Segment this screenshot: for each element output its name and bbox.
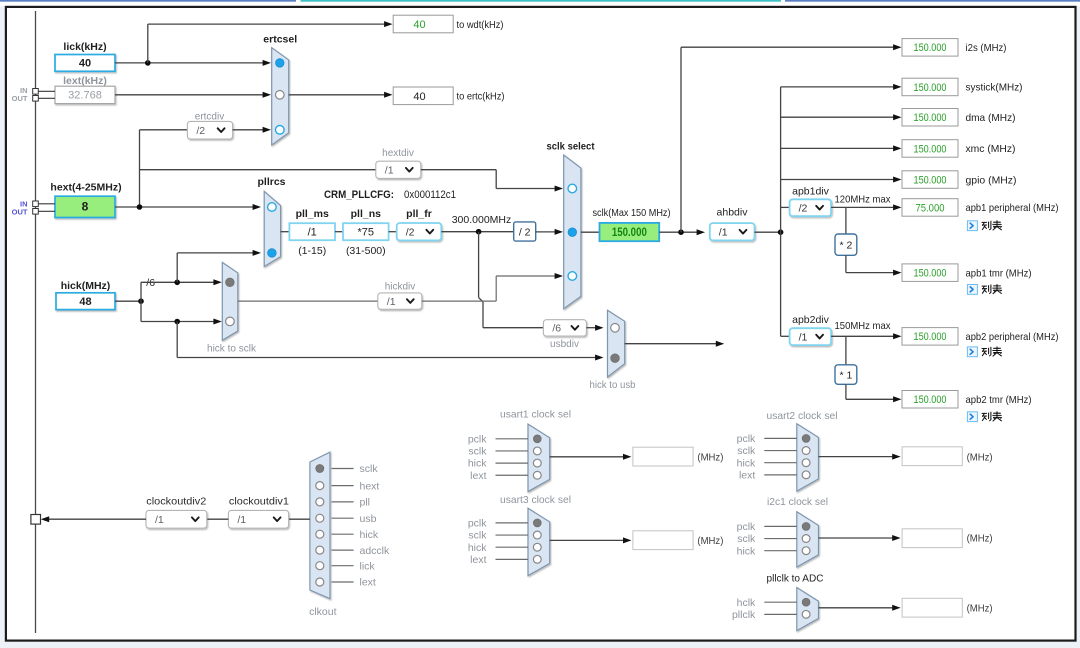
junction hext xyxy=(137,204,143,210)
svg-text:150.000: 150.000 xyxy=(914,174,947,186)
svg-text:/1: /1 xyxy=(308,227,317,239)
svg-text:150.000: 150.000 xyxy=(914,42,947,54)
svg-text:clockoutdiv1: clockoutdiv1 xyxy=(229,496,289,508)
svg-text:lext: lext xyxy=(470,554,486,566)
junction hick/6 xyxy=(174,280,180,286)
wire usart3 clock sel output xyxy=(550,539,629,541)
svg-text:(1-15): (1-15) xyxy=(298,245,326,257)
wire lext stub into clkout xyxy=(332,581,354,583)
output box gpio 150.000 xyxy=(902,171,958,189)
dropdown clockoutdiv2 /1 xyxy=(146,510,207,528)
wire hext stub into clkout xyxy=(332,485,354,487)
wire apb1div to *2 xyxy=(845,207,847,234)
wire hext IN stub xyxy=(38,203,55,205)
input box hext value 8 xyxy=(55,196,115,217)
wire hick stub into i2c1 clock sel xyxy=(764,550,797,552)
svg-text:adcclk: adcclk xyxy=(360,545,391,557)
output box xmc 150.000 xyxy=(902,140,958,158)
svg-text:/ 2: / 2 xyxy=(519,226,531,238)
wire hick riser xyxy=(140,282,142,321)
junction sclk bus xyxy=(678,229,684,235)
wire hclk distribution riser xyxy=(780,87,782,336)
browser tab accent strip (blue segment) xyxy=(0,0,296,2)
svg-text:pllrcs: pllrcs xyxy=(257,176,285,188)
svg-text:300.000MHz: 300.000MHz xyxy=(452,214,512,226)
wire lext stub into usart1 clock sel xyxy=(496,474,529,476)
mux usart3 clock sel xyxy=(528,508,550,575)
output box apb1 tmr 150.000 xyxy=(902,264,958,282)
wire clockoutdiv1 to clockoutdiv2 xyxy=(207,518,229,520)
wire hick lower branch xyxy=(141,321,214,323)
svg-text:pll_ns: pll_ns xyxy=(351,208,382,220)
wire clockout to rail xyxy=(43,518,146,520)
input box lick value 40 xyxy=(55,55,115,72)
wire sclk stub into usart1 clock sel xyxy=(496,450,529,452)
svg-text:apb2 peripheral (MHz): apb2 peripheral (MHz) xyxy=(966,331,1059,343)
svg-text:(MHz): (MHz) xyxy=(967,451,993,463)
output box i2c1 clock sel (empty) xyxy=(902,529,962,548)
svg-text:CRM_PLLCFG:: CRM_PLLCFG: xyxy=(324,189,394,201)
browser tab accent strip (teal segment) xyxy=(301,0,782,2)
junction pll output xyxy=(476,229,482,235)
svg-text:apb1div: apb1div xyxy=(792,186,830,198)
svg-text:OUT: OUT xyxy=(12,207,28,216)
wire hick stub into usart3 clock sel xyxy=(496,546,529,548)
svg-text:usart3 clock sel: usart3 clock sel xyxy=(500,494,571,506)
wire into ertcdiv xyxy=(140,129,188,131)
wire *1 down to apb2 tmr xyxy=(845,384,847,399)
svg-text:usb: usb xyxy=(360,513,377,525)
svg-text:lext(kHz): lext(kHz) xyxy=(63,75,107,87)
wire pclk stub into usart1 clock sel xyxy=(496,438,529,440)
svg-text:(MHz): (MHz) xyxy=(697,452,723,464)
svg-text:sclk: sclk xyxy=(737,533,756,545)
wire lick stub into clkout xyxy=(332,565,354,567)
wire pllclk stub into pllclk to ADC xyxy=(764,613,797,615)
svg-text:hextdiv: hextdiv xyxy=(382,148,414,159)
wire hick stub into usart2 clock sel xyxy=(764,462,797,464)
svg-text:lick: lick xyxy=(360,560,376,572)
wire hick/6 riser to pllrcs xyxy=(176,253,178,282)
wire apb2div to apb2 peripheral xyxy=(831,335,894,337)
mux hick to sclk xyxy=(222,262,238,340)
output box to wdt = 40 xyxy=(393,15,453,33)
wire to wdt horizontal xyxy=(148,23,390,25)
svg-text:to wdt(kHz): to wdt(kHz) xyxy=(457,19,504,31)
wire hext OUT stub xyxy=(38,210,55,212)
wire hick/6 branch xyxy=(141,281,214,283)
dropdown ahbdiv /1 xyxy=(710,223,755,240)
wire pllrcs output stub xyxy=(281,231,290,233)
svg-text:hick: hick xyxy=(468,458,487,470)
svg-text:hick: hick xyxy=(737,457,756,469)
svg-text:pclk: pclk xyxy=(737,433,756,445)
output box systick 150.000 xyxy=(902,78,958,96)
svg-text:to ertc(kHz): to ertc(kHz) xyxy=(457,91,505,103)
wire sclk to ahbdiv xyxy=(659,231,702,233)
output box usart1 clock sel (empty) xyxy=(633,447,693,466)
wire lext to ertcsel xyxy=(115,94,268,96)
svg-text:apb1 peripheral (MHz): apb1 peripheral (MHz) xyxy=(966,202,1059,214)
link list apb1 peripheral xyxy=(967,221,1001,231)
svg-text:pclk: pclk xyxy=(468,518,487,530)
page background outside frame xyxy=(0,6,5,648)
mux hick to usb xyxy=(608,310,625,377)
svg-text:hickdiv: hickdiv xyxy=(385,282,416,293)
wire pclk stub into usart2 clock sel xyxy=(764,437,797,439)
svg-text:40: 40 xyxy=(413,19,425,31)
svg-text:clkout: clkout xyxy=(309,606,337,618)
output box apb2 peripheral 150.000 xyxy=(902,328,958,346)
svg-text:pll: pll xyxy=(360,497,371,509)
link list apb1 tmr xyxy=(967,285,1001,295)
svg-text:(MHz): (MHz) xyxy=(967,603,993,615)
svg-text:150.000: 150.000 xyxy=(914,331,947,343)
wire lext stub into usart3 clock sel xyxy=(496,558,529,560)
output box pllclk to ADC (empty) xyxy=(902,598,962,617)
input box hick value 48 xyxy=(56,293,115,310)
svg-text:/1: /1 xyxy=(799,331,808,343)
wire pll to usbdiv (vertical with jog) xyxy=(479,232,544,328)
wire into apb1div xyxy=(781,206,790,208)
dropdown ertcdiv /2 xyxy=(187,121,232,139)
svg-text:8: 8 xyxy=(82,200,89,214)
mux usart1 clock sel xyxy=(528,424,550,491)
node lext OUT pad xyxy=(33,96,39,102)
wire pll_fr to /2 box xyxy=(441,231,513,233)
svg-text:120MHz max: 120MHz max xyxy=(835,194,892,206)
wire usb stub into clkout xyxy=(332,517,354,519)
wire lext IN stub xyxy=(38,90,55,92)
mux i2c1 clock sel xyxy=(797,512,819,567)
wire apb2div to *1 xyxy=(845,336,847,365)
svg-text:/2: /2 xyxy=(196,125,205,137)
svg-text:usart1 clock sel: usart1 clock sel xyxy=(500,409,571,421)
left I/O rail xyxy=(35,11,37,633)
wire i2s riser xyxy=(680,47,682,232)
svg-text:/1: /1 xyxy=(155,514,164,526)
wire sclk stub into clkout xyxy=(332,468,354,470)
svg-text:lick(kHz): lick(kHz) xyxy=(63,41,106,53)
svg-text:/6: /6 xyxy=(552,323,561,335)
output box i2s 150.000 xyxy=(902,39,958,57)
wire to wdt riser xyxy=(147,24,149,63)
output box apb2 tmr 150.000 xyxy=(902,391,958,409)
svg-text:gpio (MHz): gpio (MHz) xyxy=(966,174,1017,186)
svg-text:lext: lext xyxy=(739,469,755,481)
wire hick/6 to pllrcs xyxy=(177,252,258,254)
wire hick stub into clkout xyxy=(332,533,354,535)
svg-text:sclk(Max 150 MHz): sclk(Max 150 MHz) xyxy=(593,207,671,219)
svg-text:40: 40 xyxy=(413,91,425,103)
svg-text:ahbdiv: ahbdiv xyxy=(717,207,749,219)
box multiplier * 2 xyxy=(835,234,857,255)
svg-text:* 2: * 2 xyxy=(839,239,852,251)
wire ertcsel output to ertc xyxy=(289,94,390,96)
svg-text:hick to sclk: hick to sclk xyxy=(207,342,257,354)
output box dma 150.000 xyxy=(902,109,958,127)
svg-text:40: 40 xyxy=(79,58,91,70)
wire hickdiv to sclk select xyxy=(422,276,556,301)
svg-text:hext(4-25MHz): hext(4-25MHz) xyxy=(50,182,121,194)
dropdown clockoutdiv1 /1 xyxy=(228,510,288,528)
dropdown apb1div /2 xyxy=(790,199,832,216)
svg-text:* 1: * 1 xyxy=(839,369,852,381)
wire hick riser to usb mux xyxy=(176,322,178,358)
svg-text:pll_ms: pll_ms xyxy=(296,208,329,220)
wire hick-to-usb output xyxy=(625,343,721,345)
svg-text:pllclk: pllclk xyxy=(732,609,756,621)
junction hick lower xyxy=(174,319,180,325)
node hext OUT pad xyxy=(33,209,39,215)
wire sclk mux output xyxy=(581,231,600,233)
svg-text:usart2 clock sel: usart2 clock sel xyxy=(767,410,838,422)
svg-text:apb2div: apb2div xyxy=(792,314,830,326)
svg-text:/1: /1 xyxy=(385,165,394,177)
svg-text:sclk: sclk xyxy=(468,530,487,542)
wire hext riser to ertcdiv/hextdiv xyxy=(139,130,141,207)
svg-text:systick(MHz): systick(MHz) xyxy=(966,82,1023,94)
svg-text:32.768: 32.768 xyxy=(68,90,102,102)
svg-text:(31-500): (31-500) xyxy=(346,245,386,257)
wire pclk stub into usart3 clock sel xyxy=(496,522,529,524)
dropdown apb2div /1 xyxy=(790,328,832,345)
box multiplier * 1 xyxy=(835,365,857,385)
mux pllclk to ADC xyxy=(797,588,819,631)
svg-text:apb2 tmr (MHz): apb2 tmr (MHz) xyxy=(966,394,1032,406)
junction hclk bus xyxy=(778,229,784,235)
result box sclk 150.000 xyxy=(600,223,660,241)
wire into hextdiv xyxy=(140,169,376,171)
svg-text:xmc (MHz): xmc (MHz) xyxy=(966,143,1016,155)
node clockout pad xyxy=(31,515,41,525)
svg-text:hext: hext xyxy=(360,480,380,492)
svg-text:hclk: hclk xyxy=(737,597,756,609)
dropdown hextdiv /1 xyxy=(376,161,421,178)
svg-text:hick: hick xyxy=(737,545,756,557)
svg-text:(MHz): (MHz) xyxy=(967,533,993,545)
wire xmc branch xyxy=(781,147,894,149)
svg-text:pll_fr: pll_fr xyxy=(406,208,432,220)
wire apb1div to apb1 peripheral xyxy=(831,206,894,208)
svg-text:sclk: sclk xyxy=(737,445,756,457)
svg-text:ertcsel: ertcsel xyxy=(263,34,297,46)
svg-text:150.000: 150.000 xyxy=(914,394,947,406)
wire clkout output xyxy=(289,518,310,520)
wire pllclk to ADC output xyxy=(819,607,898,609)
svg-text:150.000: 150.000 xyxy=(914,267,947,279)
svg-text:150.000: 150.000 xyxy=(612,227,647,239)
wire sclk stub into i2c1 clock sel xyxy=(764,538,797,540)
dropdown pll_fr /2 xyxy=(397,223,442,240)
wire systick branch xyxy=(781,86,894,88)
junction hick xyxy=(138,298,144,304)
svg-text:75.000: 75.000 xyxy=(916,202,945,214)
wire usart2 clock sel output xyxy=(819,456,898,458)
wire lick output xyxy=(115,62,268,64)
wire /2 to sclk select xyxy=(536,231,556,233)
mux pllrcs xyxy=(264,191,280,266)
wire dma branch xyxy=(781,116,894,118)
svg-text:pllclk to ADC: pllclk to ADC xyxy=(767,572,824,584)
wire pll_ms to pll_ns xyxy=(335,231,343,233)
wire lext stub into usart2 clock sel xyxy=(764,474,797,476)
link list apb2 peripheral xyxy=(967,347,1001,357)
wire pll_ns to pll_fr xyxy=(389,231,397,233)
svg-text:*75: *75 xyxy=(358,227,375,239)
svg-text:/1: /1 xyxy=(237,514,246,526)
wire pll stub into clkout xyxy=(332,501,354,503)
svg-text:/1: /1 xyxy=(719,226,728,238)
svg-text:sclk: sclk xyxy=(360,463,379,475)
mux usart2 clock sel xyxy=(797,424,819,491)
svg-text:hick(MHz): hick(MHz) xyxy=(61,280,111,292)
svg-text:hick: hick xyxy=(468,542,487,554)
node hext IN pad xyxy=(33,201,39,207)
svg-text:/2: /2 xyxy=(799,202,808,214)
wire i2s horizontal xyxy=(681,46,894,48)
svg-text:pclk: pclk xyxy=(737,521,756,533)
svg-text:48: 48 xyxy=(79,296,91,308)
wire hick to hick-to-usb xyxy=(177,357,600,359)
wire into apb2div xyxy=(781,335,790,337)
svg-text:sclk select: sclk select xyxy=(547,141,595,153)
wire hick output xyxy=(115,300,141,302)
svg-text:150.000: 150.000 xyxy=(914,143,947,155)
svg-text:hick to usb: hick to usb xyxy=(590,379,636,391)
svg-text:0x000112c1: 0x000112c1 xyxy=(404,189,456,201)
svg-text:i2s (MHz): i2s (MHz) xyxy=(966,42,1007,54)
svg-text:dma (MHz): dma (MHz) xyxy=(966,112,1016,124)
box pll_ns *75 xyxy=(343,223,389,240)
wire lext OUT stub xyxy=(38,97,55,99)
output box apb1 peripheral 75.000 xyxy=(902,199,958,217)
box pll_ms /1 xyxy=(289,223,335,240)
node lext IN pad xyxy=(33,89,39,95)
svg-text:usbdiv: usbdiv xyxy=(550,339,579,350)
wire adcclk stub into clkout xyxy=(332,549,354,551)
wire *2 down to apb1 tmr xyxy=(845,255,847,272)
wire hick-to-sclk output xyxy=(238,300,378,302)
wire gpio branch xyxy=(781,179,894,181)
svg-text:OUT: OUT xyxy=(12,94,28,103)
wire sclk stub into usart2 clock sel xyxy=(764,450,797,452)
wire hick stub into usart1 clock sel xyxy=(496,462,529,464)
svg-text:lext: lext xyxy=(360,577,376,589)
wire hext to pllrcs xyxy=(115,206,258,208)
wire i2c1 clock sel output xyxy=(819,537,898,539)
link list apb2 tmr xyxy=(967,412,1001,422)
svg-text:lext: lext xyxy=(470,470,486,482)
mux ertcsel xyxy=(272,48,289,145)
svg-text:apb1 tmr (MHz): apb1 tmr (MHz) xyxy=(966,267,1032,279)
wire usart1 clock sel output xyxy=(550,456,629,458)
svg-text:i2c1 clock sel: i2c1 clock sel xyxy=(767,496,828,508)
wire ahbdiv to hclk bus xyxy=(755,231,784,233)
box fixed divider / 2 xyxy=(514,222,536,241)
dropdown usbdiv /6 xyxy=(543,320,586,336)
wire usbdiv to hick-to-usb mux xyxy=(586,327,600,329)
dropdown hickdiv /1 xyxy=(378,293,422,309)
output box usart3 clock sel (empty) xyxy=(633,531,693,550)
svg-text:150.000: 150.000 xyxy=(914,112,947,124)
mux clkout (mirrored) xyxy=(310,452,330,599)
svg-text:sclk: sclk xyxy=(468,446,487,458)
svg-text:150MHz max: 150MHz max xyxy=(835,320,892,332)
input box lext value 32.768 xyxy=(55,86,115,103)
label CRM_PLLCFG register value xyxy=(324,189,456,201)
junction lick/wdt xyxy=(145,60,151,66)
svg-text:pclk: pclk xyxy=(468,433,487,445)
wire sclk stub into usart3 clock sel xyxy=(496,534,529,536)
output box usart2 clock sel (empty) xyxy=(902,447,962,466)
svg-text:(MHz): (MHz) xyxy=(697,535,723,547)
output box to ertc = 40 xyxy=(393,87,453,105)
mux sclk select xyxy=(564,155,581,309)
svg-text:hick: hick xyxy=(360,529,379,541)
svg-text:clockoutdiv2: clockoutdiv2 xyxy=(146,496,206,508)
wire pclk stub into i2c1 clock sel xyxy=(764,525,797,527)
wire ertcdiv to ertcsel xyxy=(233,129,268,131)
browser tab accent strip (blue segment right) xyxy=(785,0,1080,2)
wire hextdiv to sclk select xyxy=(421,169,496,171)
wire hclk stub into pllclk to ADC xyxy=(764,601,797,603)
svg-text:150.000: 150.000 xyxy=(914,82,947,94)
svg-text:/1: /1 xyxy=(387,296,396,308)
svg-text:/2: /2 xyxy=(406,226,415,238)
